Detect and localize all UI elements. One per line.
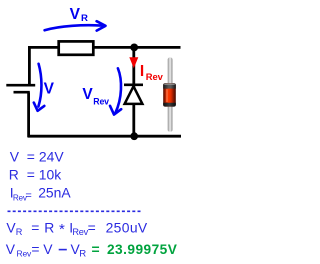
wire top horizontal [28,46,181,49]
equation line VRev = V - VR = 23.99975V [6,241,178,260]
svg-text:I: I [140,63,144,80]
battery V plate long [6,84,35,87]
svg-text:=: = [31,219,39,235]
svg-text:R: R [44,219,54,235]
svg-text:250uV: 250uV [106,220,148,236]
node junction bottom [130,132,138,140]
svg-text:R: R [79,249,86,260]
wire left vertical lower [27,93,30,138]
arrow V curved [34,64,45,111]
diode D1 cathode bar [124,83,143,86]
svg-text:=: = [25,190,31,202]
separator dashed line [8,210,141,212]
svg-text:24V: 24V [39,148,64,164]
equation line IRev = 25nA [10,184,72,202]
svg-text:V: V [70,6,81,23]
svg-text:V: V [10,148,20,164]
svg-text:*: * [59,221,65,238]
svg-text:10k: 10k [39,166,61,182]
svg-text:Rev: Rev [72,227,88,237]
svg-text:R: R [9,166,19,182]
wire bottom horizontal [28,135,181,138]
arrow VR curved [45,21,106,30]
node junction top [130,44,138,52]
svg-text:V: V [6,241,16,257]
wire left vertical upper [28,46,31,85]
svg-text:Rev: Rev [146,71,164,82]
label IRev [140,63,164,82]
label VRev [82,86,109,106]
svg-text:=: = [27,166,35,182]
equation line R = 10k [9,166,61,182]
resistor R body [59,41,94,54]
svg-text:V: V [82,86,93,103]
diode D1 triangle [125,86,143,104]
wire diode branch vertical [132,46,135,136]
equation line VR = R * IRev = 250uV [6,219,148,238]
diode photo component [163,57,176,131]
svg-text:R: R [16,227,23,237]
battery V plate short [14,91,30,94]
svg-text:V: V [44,81,55,98]
svg-text:R: R [81,13,88,24]
svg-text:Rev: Rev [17,249,32,259]
svg-text:=: = [31,241,39,257]
svg-text:Rev: Rev [93,96,109,106]
svg-text:=: = [92,241,100,257]
arrow VRev curved [110,68,121,114]
svg-text:V: V [43,241,53,257]
label VR [70,6,88,24]
svg-text:25nA: 25nA [38,185,71,201]
arrow IRev red triangle [129,57,138,68]
svg-text:23.99975V: 23.99975V [107,242,178,257]
svg-text:=: = [88,219,96,235]
svg-text:=: = [27,148,35,164]
equation line V = 24V [10,148,65,164]
